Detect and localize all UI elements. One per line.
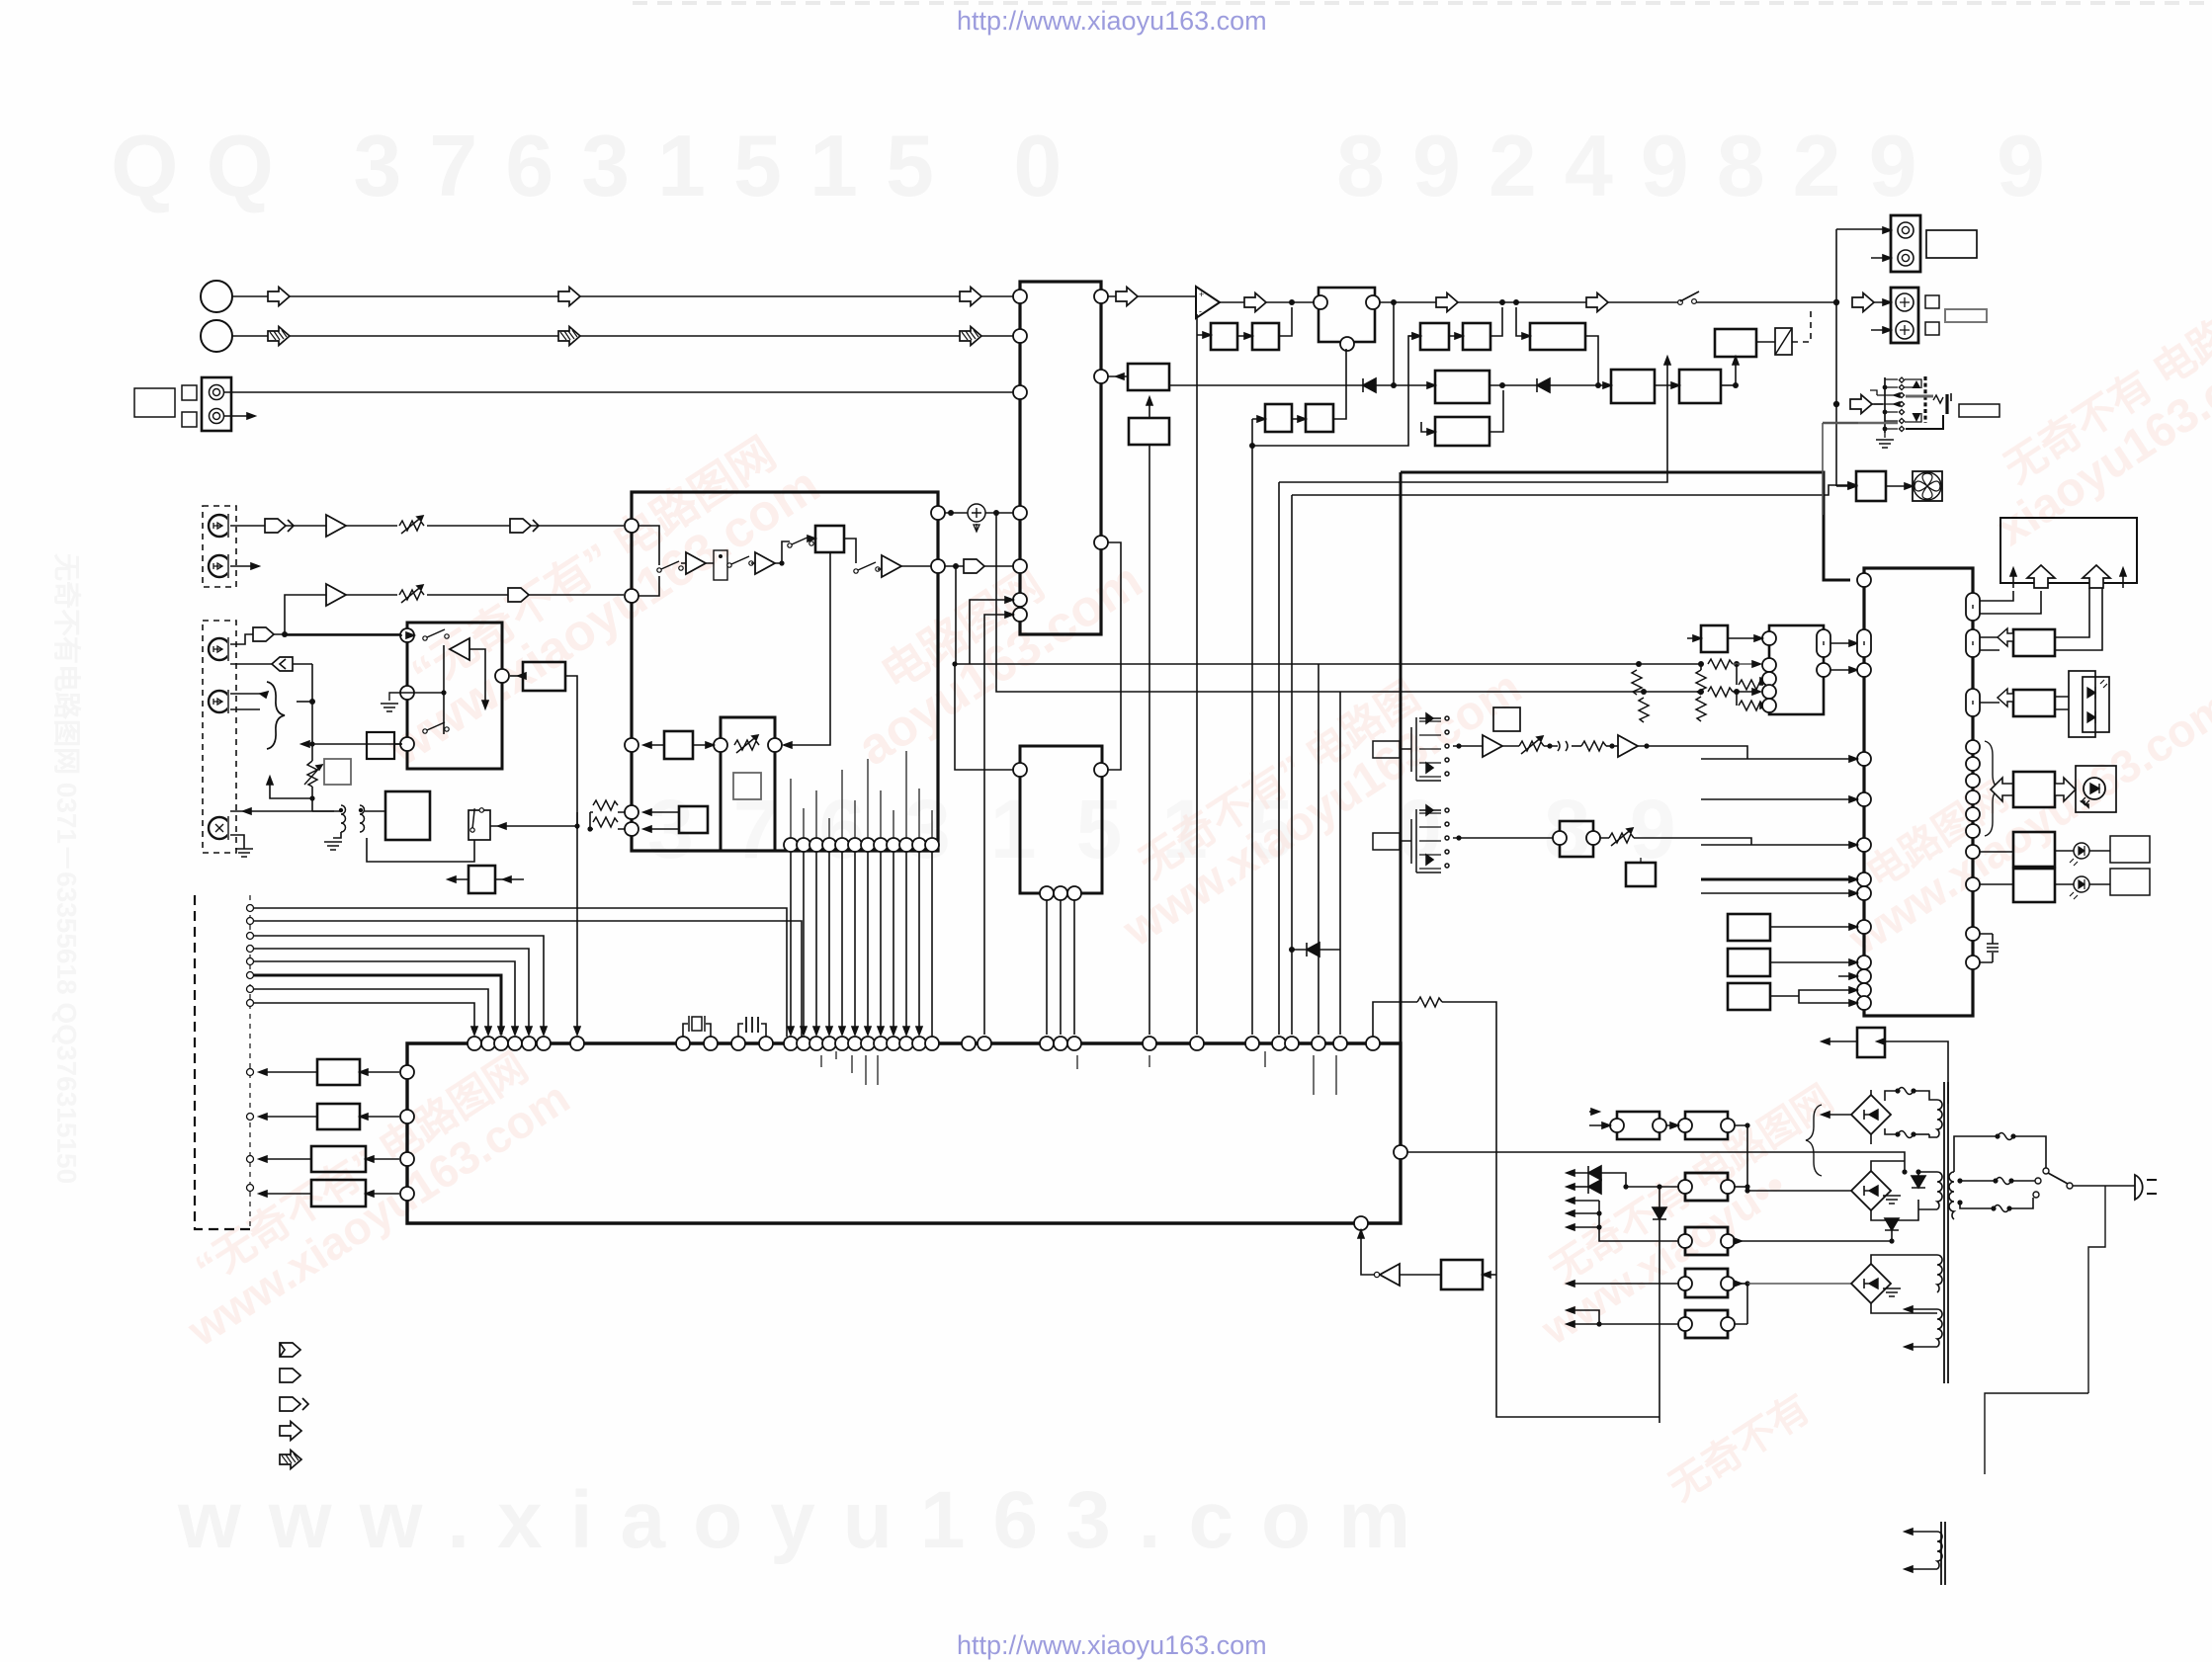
resistor network west pair (1636, 661, 1642, 667)
G5 box (2013, 869, 2055, 902)
opamp output rail (1108, 295, 1196, 297)
gray long vertical (249, 920, 251, 922)
svg-text:QQ 37631515 0: QQ 37631515 0 (111, 117, 1089, 214)
op-amp U2 (1196, 287, 1220, 318)
box right of U4 (523, 662, 565, 691)
wire t7 (254, 989, 488, 1035)
SECTION1 (134, 281, 1013, 1469)
display box F (2000, 518, 2137, 583)
long mid bus 1 (956, 566, 1701, 664)
IC U1 main DSP (1020, 282, 1101, 634)
pink diagonal watermarks (153, 266, 2212, 1510)
arrow P (508, 588, 529, 602)
wire t5 (254, 961, 515, 1035)
box pair under (1265, 404, 1292, 432)
arrow chev (265, 519, 294, 533)
bridge B3 (1851, 1264, 1891, 1303)
wire H3 bottom return (230, 663, 312, 665)
U5 right feed (1108, 542, 1121, 770)
box T1 with pins (1319, 288, 1375, 342)
amp e (882, 555, 901, 577)
IC U6 small (1769, 625, 1824, 714)
IC U5 (audio proc) (1020, 746, 1102, 893)
wire H4 (230, 694, 260, 709)
crystal X1 (683, 1024, 711, 1037)
wire t8 (254, 1003, 474, 1035)
wire into U4 pin1 from input line (406, 632, 414, 638)
secondary 4 lower (1937, 1309, 1942, 1347)
legend arrow 5 (280, 1451, 301, 1469)
svg-text:http://www.xiaoyu163.com: http://www.xiaoyu163.com (957, 6, 1267, 36)
ground stub U4 (389, 693, 414, 701)
junction (309, 699, 315, 705)
mid line to dolby arrow (431, 743, 433, 745)
B2 left out (1747, 1190, 1851, 1192)
fan motor (1913, 471, 1942, 501)
regulator boxes column (1685, 1173, 1728, 1201)
tape head H1 (209, 514, 234, 538)
U4 innards (450, 638, 469, 660)
wire opt stub (224, 415, 255, 417)
brace (267, 682, 285, 749)
U7 bottom pin (1354, 1216, 1368, 1230)
brace left (1806, 1105, 1822, 1176)
U7 right pin (1394, 1145, 1407, 1159)
wire H2 stub (230, 565, 259, 567)
U3 left pins (625, 519, 638, 533)
arrows into F (2012, 568, 2014, 588)
wire H1 out (230, 525, 326, 527)
wire H5 out (230, 810, 341, 812)
legend arrow 2 (280, 1369, 300, 1382)
U8 right pins (1966, 593, 1980, 621)
switch contacts (2043, 1168, 2049, 1174)
arrow pent into pin573 (964, 559, 984, 573)
arrow A6 (960, 327, 981, 346)
winding S4 lowest (1937, 1532, 1942, 1569)
tape head H5 (X) (209, 816, 234, 840)
arrow into spk (1852, 293, 1874, 312)
box L1 (317, 1059, 360, 1085)
meter arrow (270, 777, 312, 798)
vertical feed (311, 664, 313, 798)
risers to pins 607/622 (970, 600, 1013, 664)
switch SW1 (1674, 301, 1836, 303)
wires pins to IC D (791, 852, 932, 1037)
box D3 (1679, 370, 1721, 403)
bracket for 6 pins (1985, 741, 2000, 836)
riser to relay box (1735, 357, 1737, 385)
switch a (657, 561, 683, 572)
dashed link (1792, 306, 1811, 342)
wire from recbox right (394, 743, 402, 745)
bias osc box (385, 791, 430, 840)
svg-text:+: + (1199, 290, 1204, 299)
headphone branch (1833, 401, 1839, 407)
relay latch box (1715, 329, 1756, 357)
svg-text:-: - (1199, 306, 1202, 316)
box mid left (664, 731, 693, 759)
wire sum (938, 512, 1013, 514)
primary top wire + fuse to switch (1954, 1136, 1998, 1172)
svg-text:无奇不有电路图网 0371－63355618 QQ37631: 无奇不有电路图网 0371－63355618 QQ376315150 (51, 553, 82, 1184)
wire line into U4 pin3 (312, 743, 400, 745)
SECTION4 (250, 518, 2157, 1585)
right pin wire (1407, 1151, 1691, 1153)
secondary 2 (1937, 1172, 1942, 1209)
tape head H2 (209, 554, 234, 578)
wire t4 (254, 949, 529, 1035)
bias transformer T-B (311, 798, 313, 811)
G2 box (2013, 690, 2055, 716)
LED box (2076, 766, 2116, 812)
switch b (727, 556, 753, 567)
speaker terminal block (1891, 288, 1918, 343)
nested bus wires (1252, 336, 1420, 446)
long mid bus 2 (996, 513, 1701, 692)
comb stubs above pins (791, 751, 932, 838)
bottom pins row of U3 (784, 838, 798, 852)
power: box H (1857, 1028, 1885, 1057)
transformer core (1944, 1082, 1948, 1383)
node IN-1 circle (201, 281, 232, 312)
wire L2 (259, 1116, 399, 1118)
ground H5 (230, 835, 244, 849)
svg-text:www.xiaoyu163.com: www.xiaoyu163.com (177, 1475, 1438, 1565)
tap wires (1960, 1180, 1996, 1182)
wire from U4 right pin (510, 675, 523, 677)
wire IN-2 rail (232, 335, 1013, 337)
relay coil (1775, 328, 1792, 355)
G3 box + arrows (1991, 778, 2013, 801)
wire t1 (254, 908, 787, 1037)
SECTION2 (938, 215, 1999, 1043)
headphone jack (1858, 376, 1951, 438)
wire to RCA top (1836, 228, 1884, 230)
selector block U3 (632, 492, 938, 851)
line from mid to bridge2 (1691, 1152, 1905, 1172)
U8 left pins (1857, 573, 1871, 587)
wires R2 (1735, 1240, 1892, 1242)
arrow A1 (268, 288, 290, 306)
IR box (468, 866, 495, 893)
resistors at pins (593, 800, 618, 810)
varres RV2 (397, 583, 427, 607)
svg-text:http://www.xiaoyu163.com: http://www.xiaoyu163.com (957, 1630, 1267, 1660)
amp d (755, 552, 775, 574)
feedback vertical (1196, 314, 1198, 446)
wires R4 (1735, 1284, 1747, 1324)
row boxes right pair (1420, 323, 1449, 350)
U3 right pins (931, 506, 945, 520)
switch d (854, 562, 880, 573)
wire L1 (259, 1071, 399, 1073)
wire IN-1 rail (232, 295, 1013, 297)
dashed head box DB1 (203, 506, 236, 587)
box B1 (1128, 364, 1169, 390)
varres inner (734, 735, 759, 753)
arrow CL (272, 657, 293, 671)
svg-text:89249829 9: 89249829 9 (1336, 117, 2073, 214)
inner pin stubs (821, 1051, 1336, 1095)
top tiny dashes row (633, 1, 2212, 5)
U7 left pins (400, 1065, 414, 1079)
box under row2 (1626, 863, 1656, 886)
U1 right pins (1094, 290, 1108, 303)
U7 top pins (468, 1037, 481, 1050)
arrow A2 (558, 288, 580, 306)
inverter (1380, 1264, 1400, 1286)
varres on vertical (304, 761, 322, 787)
inner input routing (638, 526, 659, 596)
upper boxes P1 P2 (1617, 1112, 1659, 1139)
gray wire from jack down (1822, 423, 1824, 515)
arrow chev2 (510, 519, 539, 533)
standby box (1441, 1260, 1483, 1289)
box L3 (311, 1146, 366, 1172)
amp c (686, 552, 706, 574)
U6 to IC E (1830, 643, 1850, 670)
switch c (788, 537, 813, 547)
bias switch (468, 810, 490, 840)
wide box (1530, 323, 1585, 350)
box B2 (1129, 418, 1169, 445)
rec box (815, 526, 844, 552)
node IN-2 circle (201, 320, 232, 352)
inverter chain to U7 (1400, 1274, 1441, 1276)
secondary 1 (1937, 1100, 1942, 1137)
box lowleft (679, 806, 708, 833)
pin1389 riser + resistor (1373, 1002, 1417, 1037)
diode down (1912, 1176, 1925, 1188)
legend arrow 1 (280, 1343, 300, 1357)
diode row y390 (1169, 384, 1434, 386)
AC plug (2117, 1185, 2135, 1187)
wire t2 (254, 921, 802, 1037)
long inner vertical (784, 552, 830, 745)
SECTION3 (267, 446, 1857, 1037)
box L4 (311, 1180, 366, 1206)
tape head H3 (209, 637, 234, 661)
wire t3 (254, 936, 544, 1035)
wire H3 top (230, 634, 408, 644)
legend arrow 4 (280, 1422, 301, 1441)
wires R3 (1735, 1283, 1747, 1285)
U5 left feed (955, 664, 1013, 770)
wires into U8 left pins from mid rows (1701, 758, 1857, 760)
boxes feeding U8 left (1728, 914, 1770, 941)
small box row2 (1560, 821, 1593, 857)
bridge B1 (1851, 1095, 1891, 1134)
link down from IC-D right pin wire to P-row (1746, 1125, 1748, 1126)
amp U-b (326, 584, 346, 606)
arrow A5 (558, 327, 580, 346)
G1 box (2013, 629, 2055, 656)
amp U-a (326, 515, 346, 537)
U1 left pins (1013, 290, 1027, 303)
varres RV1 (397, 514, 427, 538)
terminals col (247, 905, 254, 912)
wires pinS1 to F arrows (1980, 591, 2041, 614)
IC U8 driver (1864, 568, 1973, 1016)
wires R1 (1735, 1186, 1747, 1188)
vertical feeds mid (1319, 664, 1340, 1035)
box D1 (1435, 371, 1489, 403)
primary winding (1949, 1172, 1954, 1219)
bridge B2 (1851, 1171, 1891, 1210)
resistor network to U6 (1698, 661, 1704, 667)
cap C1 (738, 1024, 766, 1037)
wire line2 (285, 595, 324, 634)
G4 box (2013, 832, 2055, 867)
wire t6 bus (254, 975, 501, 1035)
gray box (733, 773, 761, 799)
summing node (968, 504, 985, 522)
wire L3 (259, 1158, 399, 1160)
dashed head box DB2 (203, 621, 236, 853)
MOSFET row 1 (1373, 741, 1400, 758)
rec-eq box (367, 732, 394, 759)
record/play switch box U4 (407, 623, 502, 769)
switch box small (714, 550, 727, 580)
trunk junction (1833, 299, 1839, 305)
rail cont (1380, 301, 1674, 303)
gray cal box (324, 759, 351, 785)
vertical x1679 (1659, 1187, 1660, 1423)
vertical long wires mid (1149, 908, 1150, 1035)
arrow A4 (268, 327, 290, 346)
thick bus to IC-E (1401, 472, 1850, 580)
arrow A3 (960, 288, 981, 306)
wire opt rail (224, 391, 1013, 393)
fan driver box (1856, 471, 1886, 501)
RCA connector block (1891, 215, 1920, 272)
U6 feed box (1701, 625, 1728, 652)
MOSFET row 2 (1373, 833, 1400, 850)
inner sub box (721, 717, 775, 851)
tape head H4 (209, 690, 234, 713)
trunk vertical (1835, 229, 1837, 486)
dashed connector box DB3 (195, 895, 250, 1229)
box D2 (1611, 370, 1655, 403)
feedback small boxes row1 (1211, 323, 1237, 350)
cap on right pins (1980, 934, 1993, 962)
chain rail (1220, 301, 1319, 303)
box L2 (317, 1104, 360, 1129)
junction (282, 631, 288, 637)
connector J1 optical (202, 377, 231, 431)
dolby label box (1493, 707, 1520, 731)
wire (346, 525, 624, 527)
box sub row2 (1435, 417, 1489, 446)
wire L4 (259, 1193, 399, 1195)
legend arrow 3 (280, 1397, 308, 1411)
arrow P (253, 627, 274, 641)
big LED block (2069, 671, 2095, 737)
diode branch (1292, 949, 1340, 951)
U5 bottom wires (1047, 900, 1074, 1035)
secondary 3 (1937, 1255, 1942, 1292)
U8 bottom left riser wires (1870, 1015, 1872, 1017)
IC U7 system control (407, 1043, 1401, 1223)
